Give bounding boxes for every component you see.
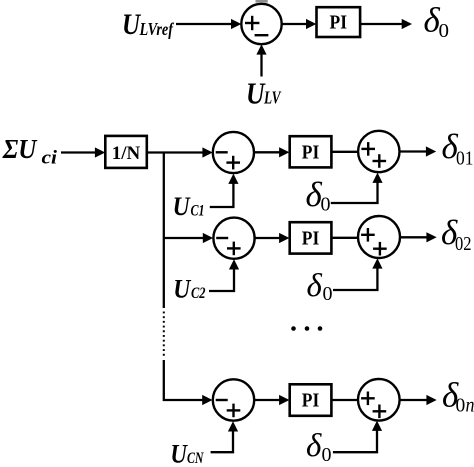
node delta0 feed label row2 [307, 268, 333, 305]
B1 plus sign lower [373, 154, 387, 168]
svg-text:U: U [173, 275, 191, 304]
wire trunk vertical solid upper [163, 153, 165, 309]
wire delta0 into B1 [331, 173, 383, 203]
A2 plus sign [227, 242, 241, 256]
wire trunk vertical lower and branch to A3 [164, 360, 204, 400]
node ULV label [246, 75, 282, 110]
node UC2 label [173, 275, 205, 304]
gain block 1/N [105, 136, 147, 168]
svg-text:U: U [170, 440, 188, 467]
summing junction B2 [358, 216, 400, 258]
svg-text:ci: ci [42, 148, 58, 169]
node UCN label [170, 440, 204, 467]
node delta0 feed label row3 [306, 428, 332, 466]
wire PI3 to summing B3 [331, 399, 358, 401]
node ULVref label [122, 8, 175, 41]
wire sumUci to 1/N block [61, 147, 105, 157]
cropped gray mark above S0 [256, 0, 268, 4]
wire PI2 to summing B2 [331, 237, 358, 239]
summing junction B3 [358, 379, 400, 421]
wire A3 to PI3 [254, 395, 289, 405]
svg-text:0: 0 [323, 283, 333, 305]
A3 plus sign [227, 404, 241, 418]
summing junction A1 [213, 132, 254, 173]
svg-text:C1: C1 [191, 203, 205, 220]
summing junction S0 [241, 4, 281, 44]
B1 plus sign upper [361, 142, 375, 156]
node delta02 output label [441, 213, 472, 255]
wire B2 to delta02 output [400, 232, 437, 242]
svg-text:U: U [246, 75, 266, 110]
svg-text:1/N: 1/N [112, 143, 141, 164]
PI controller block PI1 [290, 136, 332, 167]
PI controller block PI0 [317, 7, 361, 37]
wire PI1 to summing B1 [331, 151, 358, 153]
wire UC2 into A2 [209, 259, 239, 291]
wire delta0 into B3 [333, 421, 382, 453]
wire delta0 into B2 [333, 258, 383, 290]
A1 minus sign [216, 151, 228, 153]
ellipsis dots [291, 326, 322, 331]
B3 plus sign upper [361, 392, 375, 406]
B3 plus sign lower [373, 405, 387, 419]
svg-text:02: 02 [455, 234, 472, 255]
wire B3 to delta0n output [400, 395, 437, 405]
wire B1 to delta01 output [399, 146, 436, 156]
wire ULVref to summing junction S0 [176, 19, 241, 29]
svg-text:0: 0 [322, 444, 332, 466]
svg-text:C2: C2 [191, 285, 206, 302]
svg-text:U: U [122, 8, 141, 41]
node delta0 output label [424, 1, 450, 43]
A2 minus sign [216, 237, 228, 239]
B2 plus sign upper [361, 228, 375, 242]
svg-text:LVref: LVref [139, 19, 175, 39]
wire A2 to PI2 [255, 233, 290, 243]
PI controller block PI3 [290, 384, 332, 416]
node UC1 label [173, 192, 205, 221]
A1 plus sign [226, 156, 240, 170]
node delta0n output label [442, 376, 474, 417]
svg-text:PI: PI [302, 227, 320, 249]
svg-text:PI: PI [302, 141, 320, 163]
svg-text:δ: δ [306, 428, 322, 464]
svg-text:01: 01 [456, 149, 474, 170]
svg-text:PI: PI [302, 390, 320, 412]
wire ULV feedback into S0 [256, 44, 266, 76]
wire 1/N to junction and to summing A1 [147, 147, 213, 157]
svg-text:δ: δ [307, 268, 323, 304]
PI controller block PI2 [290, 222, 332, 253]
wire S0 to PI0 [281, 19, 316, 29]
svg-text:U: U [173, 192, 191, 221]
wire UCN into A3 [211, 421, 239, 452]
wire A1 to PI1 [254, 147, 289, 157]
summing junction A2 [213, 218, 254, 259]
svg-text:CN: CN [187, 450, 205, 467]
svg-text:n: n [466, 396, 474, 417]
wire trunk vertical dotted [163, 312, 165, 359]
wire PI0 to delta0 output [360, 19, 412, 29]
svg-text:0: 0 [321, 194, 331, 216]
node delta0 feed label row1 [306, 175, 331, 216]
svg-text:LV: LV [263, 88, 282, 108]
node delta01 output label [442, 127, 474, 170]
S0 minus sign [255, 34, 269, 36]
B2 plus sign lower [373, 242, 387, 256]
S0 plus sign [245, 16, 259, 30]
A3 minus sign [216, 399, 228, 401]
summing junction B1 [358, 131, 399, 172]
svg-text:PI: PI [330, 12, 348, 34]
svg-text:ΣU: ΣU [2, 134, 38, 164]
wire branch to summing A2 [164, 233, 213, 243]
summing junction A3 [213, 379, 254, 420]
node sum Uci label [2, 134, 58, 169]
svg-text:0: 0 [456, 396, 466, 417]
wire UC1 into A1 [210, 174, 239, 207]
svg-text:0: 0 [439, 20, 450, 42]
